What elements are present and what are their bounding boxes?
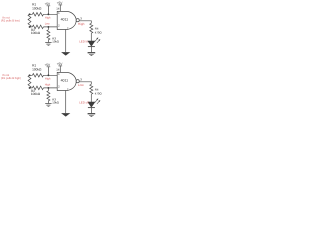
svg-text:4011: 4011 (61, 78, 69, 82)
resistor vertical left element (28, 75, 31, 88)
LED D1 (87, 102, 95, 108)
wire pin 7 to ground (65, 91, 67, 114)
svg-text:3: 3 (80, 78, 82, 82)
ground (bars) under LED (88, 52, 96, 54)
ground (bars) under R3 (45, 104, 51, 107)
resistor R4 470 (90, 84, 93, 94)
svg-text:High: High (45, 17, 51, 20)
wire input B net (30, 87, 58, 89)
junction node dot A-left (29, 13, 31, 15)
svg-text:10kΩ: 10kΩ (52, 39, 59, 43)
svg-text:High: High (45, 78, 51, 81)
svg-text:3: 3 (80, 17, 82, 21)
svg-text:(R2 pulls B low): (R2 pulls B low) (1, 20, 20, 23)
wire R3 bottom lead (47, 40, 49, 43)
NAND gate U1 4011 (57, 72, 76, 90)
svg-text:+5V: +5V (57, 62, 64, 66)
svg-text:LED lit: LED lit (79, 40, 88, 44)
output bubble (76, 19, 79, 22)
svg-text:100kΩ: 100kΩ (31, 31, 41, 35)
svg-text:100kΩ: 100kΩ (31, 92, 41, 96)
junction dot input B / R3 (47, 87, 49, 89)
LED emission arrows (95, 38, 98, 41)
svg-text:470Ω: 470Ω (95, 92, 102, 96)
wire pin 7 to ground (65, 30, 67, 53)
svg-text:2: 2 (58, 24, 60, 28)
wire input B net (30, 26, 58, 28)
svg-text:4011: 4011 (61, 17, 69, 21)
wire LED to ground (90, 47, 92, 53)
svg-text:+5V: +5V (44, 2, 51, 6)
resistor R2 100k (32, 86, 43, 90)
resistor R4 470 (90, 23, 93, 33)
wire LED to ground (90, 108, 92, 114)
junction node dot B-left (29, 26, 31, 28)
wire R3 bottom lead (47, 101, 49, 104)
svg-text:High: High (78, 22, 85, 26)
junction node dot A-left (29, 74, 31, 76)
junction dot input B / R3 (47, 26, 49, 28)
wire output net (79, 82, 91, 85)
svg-text:2: 2 (58, 85, 60, 89)
wire output net (79, 21, 91, 24)
svg-text:Low: Low (78, 83, 85, 87)
svg-text:Low: Low (45, 23, 50, 26)
svg-text:High: High (45, 84, 51, 87)
resistor R3 (47, 91, 50, 101)
svg-text:10kΩ: 10kΩ (52, 100, 59, 104)
wire R3 top lead (47, 88, 49, 91)
wire input A net (30, 13, 58, 15)
resistor R1 100k (32, 13, 43, 16)
wire R4 to LED (90, 33, 92, 41)
svg-text:+5V: +5V (57, 1, 64, 5)
junction node dot B-left (29, 87, 31, 89)
svg-text:LED off: LED off (79, 101, 89, 105)
svg-text:100kΩ: 100kΩ (32, 7, 42, 11)
svg-text:100kΩ: 100kΩ (32, 68, 42, 72)
ground (bars) under LED (88, 113, 96, 115)
ground (bars) under R3 (45, 43, 51, 46)
wire R4 to LED (90, 94, 92, 102)
ground (triangle) pin 7 (61, 52, 70, 56)
junction dot input A / +5V (47, 13, 49, 15)
output bubble (76, 80, 79, 83)
svg-text:+5V: +5V (44, 63, 51, 67)
junction dot input A / +5V (47, 74, 49, 76)
resistor R2 100k (32, 25, 43, 29)
wire R3 top lead (47, 27, 49, 30)
svg-text:470Ω: 470Ω (95, 31, 102, 35)
NAND gate U1 4011 (57, 11, 76, 29)
resistor R1 100k (32, 74, 43, 78)
LED D1 (87, 41, 95, 47)
resistor R3 (47, 30, 50, 40)
wire input A net (30, 74, 58, 76)
LED emission arrows (95, 99, 98, 102)
svg-text:(R1 pulls B high): (R1 pulls B high) (1, 77, 21, 80)
ground (triangle) pin 7 (61, 113, 70, 117)
resistor vertical left element (28, 14, 31, 27)
